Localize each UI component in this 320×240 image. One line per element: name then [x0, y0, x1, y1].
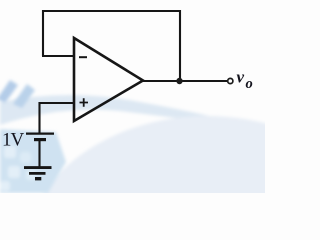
page background — [0, 0, 265, 193]
wire: feedback loop (minus input up, across top, down to output node) — [43, 11, 180, 81]
watermark: pale blue crescent band from left — [0, 95, 320, 240]
watermark: chevrons left edge — [0, 80, 35, 108]
circuit ink — [24, 11, 227, 179]
battery V1 positive plate — [26, 132, 54, 134]
op-amp minus input label — [79, 56, 87, 58]
wire: battery to ground — [38, 141, 40, 167]
svg-text:1V: 1V — [2, 130, 25, 151]
terminal: output port — [228, 78, 233, 83]
watermark: blue corner block with light mosaic — [0, 129, 66, 193]
op-amp U1 — [74, 38, 143, 121]
ground — [24, 166, 52, 169]
battery V1 negative plate — [34, 138, 46, 141]
wire: minus input stub — [42, 55, 74, 57]
wire: plus input from battery — [40, 103, 75, 133]
op-amp plus input label — [80, 98, 89, 107]
wire: output — [143, 80, 227, 82]
svg-text:v: v — [237, 68, 245, 87]
svg-text:o: o — [246, 76, 253, 92]
node: output junction — [176, 78, 182, 84]
